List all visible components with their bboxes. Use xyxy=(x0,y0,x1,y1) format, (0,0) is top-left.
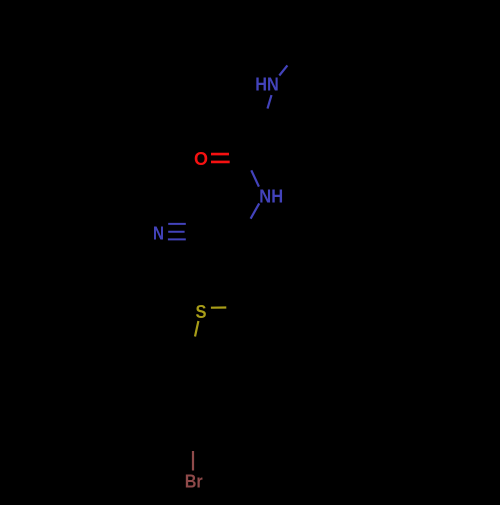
svg-text:NH: NH xyxy=(259,186,283,206)
svg-text:O: O xyxy=(194,149,208,169)
svg-text:HN: HN xyxy=(255,74,279,94)
svg-text:S: S xyxy=(196,302,207,322)
svg-text:Br: Br xyxy=(185,471,203,491)
svg-text:N: N xyxy=(153,223,164,243)
